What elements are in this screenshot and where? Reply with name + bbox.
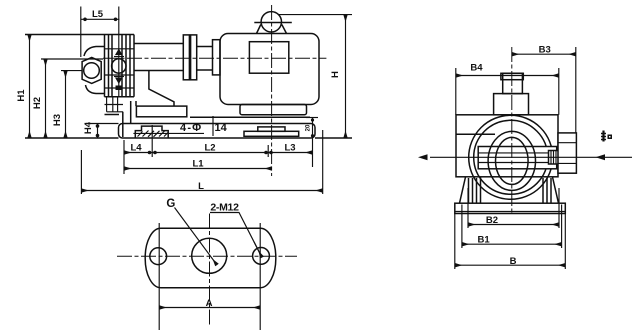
dim L2 bbox=[152, 152, 268, 154]
inlet arrow bbox=[596, 154, 606, 160]
bearing symbol top arrow bbox=[115, 49, 123, 56]
motor axis centerline bbox=[103, 57, 326, 59]
svg-text:L5: L5 bbox=[92, 9, 104, 20]
dim L5 bbox=[80, 7, 82, 58]
shaft to motor bbox=[197, 47, 213, 71]
svg-text:L2: L2 bbox=[204, 143, 215, 154]
svg-text:B3: B3 bbox=[539, 45, 551, 56]
dim H2 bbox=[41, 58, 103, 60]
pump body lower column bbox=[105, 97, 124, 112]
pump inlet hex nut bbox=[82, 58, 101, 84]
bracket mid lines bbox=[456, 133, 495, 135]
casing outer circle bbox=[469, 115, 553, 199]
svg-text:G: G bbox=[166, 198, 175, 210]
dim B1 bbox=[462, 205, 562, 249]
motor vertical centerline bbox=[271, 5, 273, 176]
svg-text:B4: B4 bbox=[470, 63, 483, 74]
hole position extension line bbox=[212, 116, 214, 136]
svg-text:L4: L4 bbox=[130, 143, 142, 154]
dim H3 bbox=[61, 70, 82, 72]
lower gear blob bbox=[116, 86, 123, 91]
bolt hole hatch bbox=[138, 131, 169, 137]
bearing symbol bottom arrow bbox=[114, 76, 124, 78]
dim H1 bbox=[29, 35, 31, 139]
relief valve plug bbox=[549, 151, 562, 165]
svg-text:H3: H3 bbox=[52, 114, 63, 126]
pump body plates bbox=[25, 35, 134, 97]
side suction port bbox=[558, 133, 576, 173]
dim H bbox=[279, 14, 353, 16]
svg-text:H1: H1 bbox=[16, 89, 27, 102]
top port neck bbox=[503, 73, 523, 93]
pump bracket diagonal bbox=[149, 71, 174, 106]
coupling disc 2 bbox=[191, 35, 197, 80]
casing inner circle bbox=[474, 120, 548, 194]
eye bolt legs bbox=[257, 25, 287, 34]
svg-text:14: 14 bbox=[215, 122, 228, 134]
left foot bbox=[460, 177, 481, 203]
right view vertical centerline bbox=[511, 47, 513, 215]
svg-text:L: L bbox=[198, 181, 204, 192]
coupling disc 1 bbox=[183, 35, 189, 80]
gear housing inner ellipse bbox=[496, 137, 529, 184]
inlet glyph bbox=[601, 131, 612, 142]
svg-text:20: 20 bbox=[306, 124, 312, 131]
dim B4 bbox=[456, 68, 559, 115]
motor body bbox=[220, 34, 319, 105]
dim A bbox=[159, 307, 260, 309]
svg-text:A: A bbox=[206, 298, 213, 309]
svg-text:L1: L1 bbox=[192, 159, 204, 170]
flow centerline bbox=[430, 156, 632, 158]
pump body internal lines bbox=[105, 49, 135, 88]
svg-text:H2: H2 bbox=[32, 97, 43, 109]
dim A extension lines bbox=[159, 223, 260, 330]
motor foot block bbox=[240, 105, 307, 115]
outlet arrow bbox=[418, 154, 428, 160]
dim L bbox=[81, 130, 322, 194]
inlet boss bottom bbox=[86, 85, 105, 94]
svg-text:4-Φ: 4-Φ bbox=[180, 122, 202, 134]
flange outline stadium bbox=[145, 228, 276, 287]
dim base height 20 bbox=[306, 117, 318, 119]
svg-text:B1: B1 bbox=[478, 235, 491, 246]
dim L1 bbox=[124, 168, 272, 170]
dim B2 bbox=[468, 188, 559, 228]
leader G bbox=[175, 208, 218, 266]
shaft axis vertical line bbox=[118, 7, 120, 98]
dim L3 bbox=[268, 152, 312, 154]
motor flange bbox=[213, 40, 221, 75]
pump bracket mount plate bbox=[136, 106, 186, 117]
baseline extension left bbox=[25, 137, 119, 139]
base plate bbox=[119, 124, 316, 139]
dim B bbox=[455, 214, 566, 270]
leader 2-M12 underline bbox=[210, 213, 262, 258]
right bolt hole section rects bbox=[258, 127, 285, 131]
right foot bbox=[543, 177, 559, 203]
svg-text:2-M12: 2-M12 bbox=[210, 202, 239, 214]
bottom view horizontal centerline bbox=[117, 255, 297, 257]
dim line L4 L2 L3 extension lines bbox=[124, 125, 268, 174]
svg-text:B: B bbox=[510, 256, 517, 267]
cover bar inner lines bbox=[478, 153, 557, 163]
svg-text:H4: H4 bbox=[83, 121, 94, 134]
motor terminal box bbox=[249, 42, 288, 73]
pump bracket legs bbox=[105, 101, 137, 137]
shaft circle bbox=[112, 59, 126, 73]
bolt hole section hat bbox=[135, 126, 168, 137]
bell housing lines bbox=[134, 44, 183, 71]
eye bolt cross line bbox=[254, 22, 291, 24]
leader line 4-phi14 bbox=[133, 132, 204, 134]
gear housing outer ellipse bbox=[488, 131, 535, 190]
bed upper surface line bbox=[190, 116, 310, 118]
dim L4 bbox=[124, 152, 152, 154]
bearing bracket square bbox=[456, 115, 558, 177]
baseline extension right bbox=[315, 137, 352, 139]
center port circle bbox=[192, 238, 227, 273]
top port flange bbox=[494, 94, 529, 115]
leader 2-M12 arrow bbox=[254, 242, 262, 258]
svg-text:B2: B2 bbox=[486, 215, 498, 226]
dim H4 bbox=[86, 123, 119, 125]
dim B3 bbox=[575, 47, 577, 133]
svg-text:H: H bbox=[330, 71, 341, 78]
cover bar bbox=[478, 147, 557, 169]
right bolt hole bbox=[253, 248, 270, 265]
pump base plate bbox=[455, 203, 566, 213]
svg-text:L3: L3 bbox=[284, 143, 295, 154]
inlet boss top bbox=[84, 47, 105, 57]
left bolt hole bbox=[150, 248, 167, 265]
base inner line bbox=[455, 211, 566, 213]
eye bolt circle bbox=[261, 12, 281, 32]
bottom view vertical centerline bbox=[209, 214, 211, 326]
